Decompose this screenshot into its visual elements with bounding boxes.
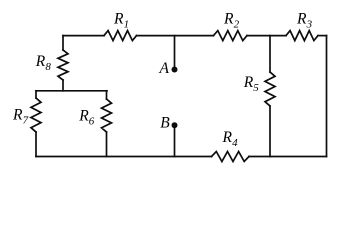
label R7 <box>12 107 29 127</box>
wire top middle segment <box>137 35 214 37</box>
wire mid horizontal <box>36 90 107 92</box>
svg-text:4: 4 <box>232 137 238 149</box>
label R8 <box>35 53 52 73</box>
wire R6 bottom lead <box>106 132 108 157</box>
resistor R7 <box>31 98 41 132</box>
wire R8 top lead <box>62 36 64 50</box>
resistor R8 <box>58 50 68 80</box>
wire R6 top lead <box>106 91 108 99</box>
label R1 <box>113 10 129 30</box>
label R4 <box>222 129 239 149</box>
wire R7 top lead <box>35 91 37 98</box>
svg-text:R: R <box>78 108 89 125</box>
wire between R2 and R3 <box>247 35 286 37</box>
label R6 <box>78 108 95 128</box>
resistor R4 <box>212 152 250 162</box>
resistor R1 <box>104 31 137 41</box>
wire bottom-right segment <box>249 156 327 158</box>
svg-text:3: 3 <box>306 18 313 30</box>
svg-text:R: R <box>12 107 23 124</box>
wire top-right corner <box>318 35 327 37</box>
resistor R2 <box>214 31 248 41</box>
wire R5 top lead <box>269 36 271 72</box>
wire right vertical <box>326 36 328 157</box>
wire R5 bottom lead <box>269 106 271 157</box>
wire node B stub <box>174 125 176 156</box>
svg-text:7: 7 <box>23 115 29 127</box>
svg-text:1: 1 <box>124 18 130 30</box>
svg-text:R: R <box>113 10 124 27</box>
svg-text:2: 2 <box>234 18 240 30</box>
svg-text:R: R <box>35 53 46 70</box>
svg-text:6: 6 <box>89 116 95 128</box>
svg-text:B: B <box>160 114 170 131</box>
svg-text:R: R <box>222 129 233 146</box>
svg-text:R: R <box>296 10 307 27</box>
svg-text:8: 8 <box>45 61 51 73</box>
node B junction dot <box>172 122 178 128</box>
wire node A stub <box>174 36 176 70</box>
svg-text:5: 5 <box>253 82 259 94</box>
resistor R5 <box>265 72 275 106</box>
svg-text:R: R <box>243 74 254 91</box>
label R2 <box>223 10 240 30</box>
wire bottom-left segment <box>36 156 212 158</box>
wire R8 bottom lead <box>62 80 64 91</box>
node A junction dot <box>172 67 178 73</box>
resistor R3 <box>286 31 318 41</box>
label R5 <box>243 74 260 94</box>
wire R7 bottom lead <box>35 132 37 157</box>
svg-text:A: A <box>159 60 170 77</box>
wire top-left segment <box>63 35 104 37</box>
label R3 <box>296 10 313 30</box>
resistor R6 <box>102 99 112 132</box>
svg-text:R: R <box>223 10 234 27</box>
